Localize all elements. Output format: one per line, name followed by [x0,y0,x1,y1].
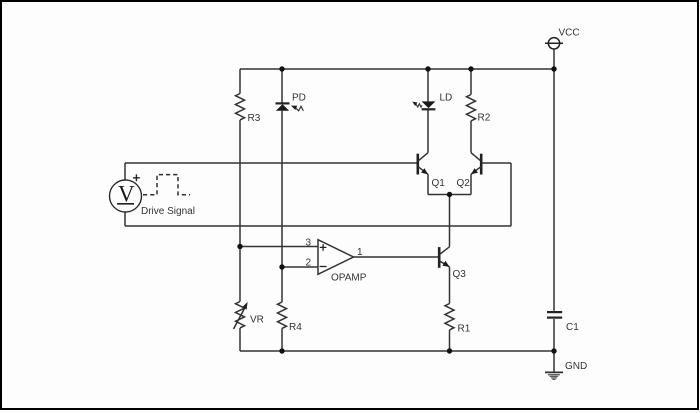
wire drive signal top (V+ to Q1 base) [125,162,418,164]
node LD/top rail [425,66,430,71]
svg-text:Q3: Q3 [453,269,467,280]
svg-text:Q2: Q2 [457,178,471,189]
wire PD to R4 [281,111,283,302]
wire Q2 base stub [482,162,512,164]
svg-text:R4: R4 [289,322,302,333]
svg-text:3: 3 [306,238,312,249]
svg-text:C1: C1 [566,322,579,333]
svg-text:R2: R2 [478,113,491,124]
node VCC/top rail [551,66,556,71]
power symbol VCC [545,38,563,49]
resistor R1 [445,304,454,330]
wire R2 branch top [470,69,472,95]
wire Q2 base loop vertical [510,163,512,226]
ground symbol [545,372,563,379]
laser diode LD [412,101,435,109]
wire VCC stub [553,50,555,70]
wire right column lower (C1 to GND) [553,319,555,372]
svg-text:V: V [118,182,135,207]
wire opamp output to Q3 base [354,256,440,258]
svg-text:OPAMP: OPAMP [331,273,367,284]
wire tail node to Q3 collector [449,195,451,247]
node R4/bottom rail [279,348,284,353]
node R2/top rail [468,66,473,71]
svg-text:R1: R1 [458,324,471,335]
svg-text:PD: PD [292,93,306,104]
wire drive signal bottom return [125,225,511,227]
wire bottom rail GND net [240,350,554,352]
wire V source top stub [124,163,126,180]
svg-text:1: 1 [357,247,363,258]
wire R4 to bottom rail [281,328,283,351]
svg-text:2: 2 [306,258,312,269]
transistor Q2 [471,153,481,175]
wire PD branch top [281,69,283,103]
wire R3 branch top [239,69,241,94]
wire emitter join rail [428,194,471,196]
variable resistor VR [234,302,246,330]
node emitter join [447,192,452,197]
wire Q2 emitter vertical [470,174,472,194]
wire top rail VCC net [240,68,554,70]
wire V source bottom stub [124,212,126,226]
svg-text:Q1: Q1 [432,178,446,189]
wire R1 to bottom rail [449,330,451,351]
node GND/bottom rail [551,348,556,353]
svg-text:VCC: VCC [559,28,580,39]
resistor R4 [278,302,287,328]
wire Q3 emitter to R1 [449,267,451,304]
photodiode PD [276,103,304,111]
junction node dots [237,66,556,353]
drive signal waveform [143,175,190,195]
node PD/top rail [279,66,284,71]
wire LD to Q1 collector [427,110,429,153]
svg-text:GND: GND [565,361,587,372]
op-amp U1 [318,240,354,275]
wire LD branch top [427,69,429,101]
svg-text:R3: R3 [248,113,261,124]
transistor Q3 [439,247,449,268]
svg-text:Drive Signal: Drive Signal [141,206,195,217]
node R1/bottom rail [447,348,452,353]
resistor R3 [236,94,245,120]
wire R3 to VR [239,120,241,302]
node R4/opamp- [279,264,284,269]
resistor R2 [467,95,476,121]
wire opamp noninverting input [240,246,318,248]
wire opamp inverting input [282,266,318,268]
wire Q1 emitter vertical [427,174,429,194]
capacitor C1 [547,312,562,318]
transistor Q1 [418,153,428,175]
voltage source V1 [110,174,142,212]
wire R2 to Q2 collector [470,121,472,153]
wire right column upper (VCC to C1) [553,69,555,311]
svg-text:VR: VR [250,315,264,326]
wire VR to bottom rail [239,328,241,351]
node R3/opamp+ [237,244,242,249]
svg-text:LD: LD [440,93,453,104]
VR arrowhead [242,302,248,310]
